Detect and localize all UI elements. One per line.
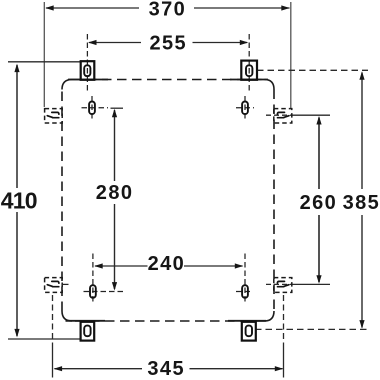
svg-text:280: 280 bbox=[96, 182, 134, 204]
svg-text:260: 260 bbox=[300, 192, 338, 214]
svg-text:255: 255 bbox=[150, 32, 188, 54]
svg-text:345: 345 bbox=[147, 358, 185, 380]
svg-text:385: 385 bbox=[343, 192, 380, 214]
svg-text:370: 370 bbox=[149, 0, 187, 21]
svg-text:410: 410 bbox=[1, 188, 37, 214]
svg-text:240: 240 bbox=[148, 253, 186, 275]
